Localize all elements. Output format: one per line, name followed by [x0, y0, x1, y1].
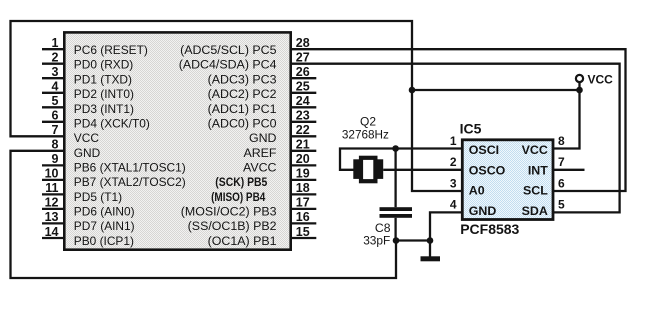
svg-text:16: 16 [296, 210, 310, 224]
capacitor C8 bottom plate [380, 214, 413, 218]
wire up to IC5 GND pin4 [430, 212, 463, 240]
svg-text:SCL: SCL [523, 184, 548, 198]
U1 pin 16 stub [291, 222, 316, 224]
svg-text:PD4 (XCK/T0): PD4 (XCK/T0) [74, 116, 150, 130]
svg-text:PD3 (INT1): PD3 (INT1) [74, 102, 134, 116]
svg-text:8: 8 [52, 138, 59, 152]
svg-text:VCC: VCC [74, 131, 100, 145]
U1 pin 17 stub [291, 208, 316, 210]
svg-text:PD5 (T1): PD5 (T1) [74, 190, 122, 204]
U1 pin 13 stub [42, 222, 64, 224]
svg-text:23: 23 [296, 109, 310, 123]
svg-text:OSCI: OSCI [469, 143, 499, 157]
wire GND: U1 pin8 left, down, bottom rail to C8 node [11, 151, 397, 278]
svg-text:GND: GND [469, 204, 497, 218]
svg-text:GND: GND [249, 131, 277, 145]
svg-text:10: 10 [45, 167, 59, 181]
U1 pin 6 stub [42, 121, 64, 123]
svg-text:14: 14 [45, 225, 59, 239]
svg-text:12: 12 [45, 196, 59, 210]
U1 pin 24 stub [291, 106, 316, 108]
U1 pin 20 stub [291, 164, 316, 166]
U1 pin 15 stub [291, 237, 316, 239]
svg-text:PD0 (RXD): PD0 (RXD) [74, 58, 133, 72]
svg-text:PD7 (AIN1): PD7 (AIN1) [74, 219, 135, 233]
U1 pin 22 stub [291, 135, 316, 137]
svg-text:2: 2 [450, 155, 457, 169]
wire VCC branch to VCC symbol [412, 89, 580, 91]
svg-text:3: 3 [52, 65, 59, 79]
svg-text:1: 1 [450, 134, 457, 148]
VCC symbol [576, 75, 583, 82]
svg-text:IC5: IC5 [460, 120, 482, 136]
wire INT stub IC5 pin7 [554, 169, 585, 171]
U1 pin 10 stub [42, 179, 64, 181]
svg-text:VCC: VCC [522, 143, 548, 157]
crystal Q2 right plate [377, 159, 383, 179]
svg-text:(SS/OC1B) PB2: (SS/OC1B) PB2 [188, 219, 277, 233]
svg-text:(ADC3) PC3: (ADC3) PC3 [208, 72, 277, 86]
U1 pin 26 stub [291, 77, 316, 79]
wire OSCO: crystal right to IC5 pin2 [383, 169, 463, 171]
svg-text:13: 13 [45, 210, 59, 224]
svg-text:24: 24 [296, 94, 310, 108]
capacitor C8 top plate [380, 207, 413, 211]
svg-text:11: 11 [45, 181, 58, 195]
U1 pin 2 stub [42, 63, 64, 65]
junction VCC rail [409, 87, 416, 94]
svg-text:OSCO: OSCO [469, 163, 506, 177]
svg-text:PCF8583: PCF8583 [460, 221, 519, 237]
wire OSCI: IC5 pin1 to crystal left [340, 149, 463, 170]
wire SCL: U1 pin28 to IC5 pin6 [291, 49, 626, 191]
RTC IC5 PCF8583 body [462, 140, 553, 220]
svg-text:A0: A0 [469, 184, 485, 198]
svg-text:1: 1 [52, 36, 59, 50]
svg-text:PB7 (XTAL2/TOSC2): PB7 (XTAL2/TOSC2) [74, 175, 186, 189]
svg-text:17: 17 [296, 196, 310, 210]
svg-text:PD2 (INT0): PD2 (INT0) [74, 87, 134, 101]
U1 pin 4 stub [42, 92, 64, 94]
svg-text:4: 4 [450, 198, 457, 212]
U1 pin 3 stub [42, 77, 64, 79]
svg-text:(MISO) PB4: (MISO) PB4 [211, 190, 265, 204]
svg-text:(ADC2) PC2: (ADC2) PC2 [208, 87, 277, 101]
U1 pin 25 stub [291, 92, 316, 94]
U1 pin 21 stub [291, 150, 316, 152]
junction C8 bottom [393, 237, 400, 244]
wire VCC down to IC5 pin8 [554, 83, 580, 149]
svg-text:6: 6 [558, 176, 565, 190]
svg-text:PB6 (XTAL1/TOSC1): PB6 (XTAL1/TOSC1) [74, 160, 186, 174]
svg-text:(ADC0) PC0: (ADC0) PC0 [208, 116, 277, 130]
svg-text:SDA: SDA [522, 204, 548, 218]
crystal Q2 left plate [353, 159, 359, 179]
svg-text:32768Hz: 32768Hz [342, 128, 389, 141]
svg-text:(ADC4/SDA) PC4: (ADC4/SDA) PC4 [179, 58, 277, 72]
svg-text:28: 28 [296, 36, 310, 50]
svg-text:(ADC5/SCL) PC5: (ADC5/SCL) PC5 [180, 43, 277, 57]
svg-text:(ADC1) PC1: (ADC1) PC1 [208, 102, 277, 116]
svg-text:PD1 (TXD): PD1 (TXD) [74, 72, 132, 86]
svg-text:7: 7 [52, 123, 59, 137]
svg-text:25: 25 [296, 80, 310, 94]
U1 pin 12 stub [42, 208, 64, 210]
svg-text:AREF: AREF [243, 146, 276, 160]
microcontroller U1 ATmega8 body [64, 32, 290, 249]
svg-text:7: 7 [558, 155, 565, 169]
wire SDA: U1 pin27 to IC5 pin5 [291, 64, 620, 213]
svg-text:27: 27 [296, 51, 310, 65]
svg-text:PD6 (AIN0): PD6 (AIN0) [74, 204, 135, 218]
svg-text:INT: INT [528, 163, 548, 177]
svg-text:15: 15 [296, 225, 310, 239]
svg-text:19: 19 [296, 167, 310, 181]
svg-text:8: 8 [558, 134, 565, 148]
U1 pin 14 stub [42, 237, 64, 239]
svg-text:3: 3 [450, 176, 457, 190]
U1 pin 18 stub [291, 193, 316, 195]
svg-text:21: 21 [296, 138, 310, 152]
junction below VCC symbol [576, 87, 583, 94]
svg-text:6: 6 [52, 109, 59, 123]
U1 pin 5 stub [42, 106, 64, 108]
svg-text:18: 18 [296, 181, 310, 195]
svg-text:PC6 (RESET): PC6 (RESET) [74, 43, 148, 57]
svg-text:Q2: Q2 [360, 115, 376, 129]
U1 pin 11 stub [42, 193, 64, 195]
ground symbol [429, 241, 431, 258]
svg-text:22: 22 [296, 123, 310, 137]
svg-text:(MOSI/OC2) PB3: (MOSI/OC2) PB3 [181, 204, 277, 218]
svg-text:AVCC: AVCC [243, 160, 277, 174]
U1 pin 9 stub [42, 164, 64, 166]
svg-text:PB0 (ICP1): PB0 (ICP1) [74, 234, 134, 248]
U1 pin 19 stub [291, 179, 316, 181]
svg-text:2: 2 [52, 51, 59, 65]
junction OSCI / C8 tap [392, 145, 399, 152]
U1 pin 23 stub [291, 121, 316, 123]
svg-text:9: 9 [52, 152, 59, 166]
svg-text:33pF: 33pF [363, 233, 390, 247]
svg-text:(SCK) PB5: (SCK) PB5 [215, 175, 267, 189]
crystal Q2 body [361, 158, 375, 181]
svg-text:(OC1A) PB1: (OC1A) PB1 [208, 234, 277, 248]
U1 pin 1 stub [42, 48, 64, 50]
wire C8 bottom lead [394, 218, 396, 241]
svg-text:GND: GND [74, 146, 101, 160]
wire GND node to ground branch [396, 239, 430, 241]
svg-text:4: 4 [52, 80, 59, 94]
wire OSCI tap down to C8 [394, 149, 396, 208]
svg-text:26: 26 [296, 65, 310, 79]
junction ground branch [427, 237, 434, 244]
svg-text:VCC: VCC [588, 73, 614, 87]
svg-text:5: 5 [52, 94, 59, 108]
wire VCC: U1 pin7 left, top rail, down to IC5 A0 pin3 [11, 21, 464, 191]
svg-text:5: 5 [558, 198, 565, 212]
svg-text:20: 20 [296, 152, 310, 166]
